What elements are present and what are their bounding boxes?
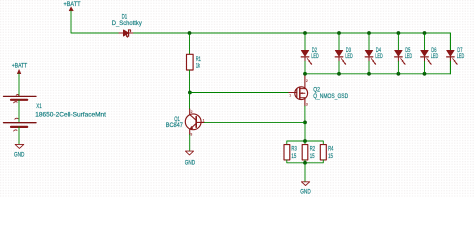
- LED D5: [395, 33, 406, 74]
- svg-text:GND: GND: [300, 188, 311, 195]
- svg-text:3: 3: [306, 103, 308, 107]
- svg-text:GND: GND: [185, 160, 196, 167]
- svg-text:LED: LED: [457, 53, 465, 60]
- wire +BATT stem to rail: [71, 11, 119, 33]
- resistor R1: [187, 33, 194, 93]
- ground GND under Q1: [185, 151, 196, 167]
- svg-text:+BATT: +BATT: [64, 1, 81, 8]
- wire resistor bank bottom rail: [287, 160, 324, 163]
- diode D1 (Schottky): [119, 30, 134, 37]
- wire Q2 source down to sense node: [304, 106, 306, 122]
- svg-text:1k: 1k: [196, 63, 201, 70]
- wire top rail D1 to LED rail end: [134, 32, 451, 34]
- svg-text:GND: GND: [14, 151, 25, 158]
- wire +BATT to battery: [18, 74, 20, 96]
- wire sense node to Q1 base: [204, 121, 305, 123]
- LED D6: [421, 33, 432, 74]
- svg-text:LED: LED: [431, 53, 439, 60]
- battery X1 cell 1: [4, 94, 37, 102]
- wire bank to GND: [304, 163, 306, 182]
- wire Q1 emitter to GND: [189, 135, 191, 151]
- wire resistor bank top rail: [287, 141, 324, 145]
- wire LED rail right drop: [449, 33, 451, 74]
- svg-text:BC847: BC847: [166, 122, 184, 129]
- LED D4: [365, 33, 376, 74]
- node junction R1 top: [188, 31, 192, 35]
- wire battery bottom to GND: [18, 127, 20, 144]
- node junction gate tee: [188, 91, 192, 95]
- svg-text:Q_NMOS_GSD: Q_NMOS_GSD: [313, 93, 348, 100]
- svg-text:D_Schottky: D_Schottky: [112, 20, 143, 27]
- power flag +BATT (battery branch): [12, 62, 28, 73]
- resistor R2: [302, 145, 308, 160]
- wire battery mid: [18, 100, 20, 122]
- svg-text:15: 15: [328, 153, 333, 160]
- node bank bottom junction: [303, 161, 307, 165]
- LED D7: [447, 33, 458, 74]
- LED D2: [301, 33, 312, 74]
- wire gate wire to Q2: [190, 92, 289, 94]
- svg-text:R2: R2: [310, 146, 316, 153]
- svg-text:2: 2: [306, 79, 308, 83]
- power flag +BATT (top left): [64, 1, 81, 11]
- svg-text:R4: R4: [328, 146, 334, 153]
- LED D3: [335, 33, 346, 74]
- svg-text:LED: LED: [345, 53, 353, 60]
- svg-text:18650-2Cell-SurfaceMnt: 18650-2Cell-SurfaceMnt: [35, 111, 106, 118]
- transistor Q2 Q_NMOS_GSD: [289, 74, 308, 107]
- svg-text:LED: LED: [405, 53, 413, 60]
- resistor R4: [320, 145, 326, 160]
- wire R1 bottom to Q1 collector: [189, 93, 191, 110]
- wire R2 bottom stub: [304, 160, 306, 163]
- svg-text:LED: LED: [311, 53, 319, 60]
- svg-text:3: 3: [190, 133, 192, 137]
- battery X1 cell 2: [4, 118, 37, 131]
- svg-text:R3: R3: [291, 146, 297, 153]
- svg-text:15: 15: [291, 153, 296, 160]
- svg-text:2: 2: [191, 110, 193, 114]
- svg-text:LED: LED: [375, 53, 383, 60]
- svg-text:15: 15: [310, 153, 315, 160]
- svg-text:X1: X1: [36, 103, 42, 110]
- svg-text:1: 1: [289, 94, 291, 98]
- wire LED bottom rail: [305, 73, 450, 75]
- svg-text:+BATT: +BATT: [12, 62, 28, 69]
- ground GND under battery: [14, 144, 25, 158]
- transistor Q1 BC847: [185, 109, 204, 137]
- resistor R3: [284, 145, 290, 160]
- node bank top junction: [303, 139, 307, 143]
- node LED rail junctions top: [303, 31, 426, 35]
- wire R2 top stub: [304, 141, 306, 145]
- wire sense node down to resistor bank: [304, 122, 306, 141]
- ground GND under resistor bank: [300, 182, 311, 196]
- node source junction: [303, 121, 307, 125]
- node LED rail junctions bottom: [303, 72, 426, 76]
